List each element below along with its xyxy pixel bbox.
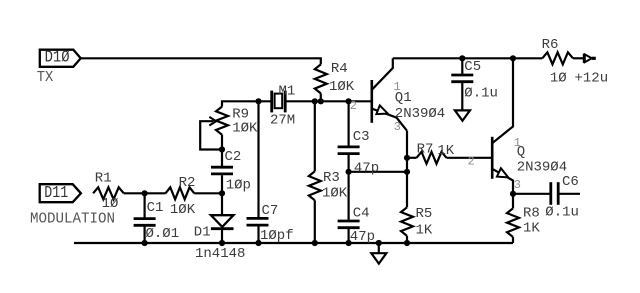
svg-text:C5: C5 bbox=[464, 59, 481, 75]
svg-text:2: 2 bbox=[350, 99, 357, 113]
svg-text:MODULATION: MODULATION bbox=[30, 211, 115, 228]
svg-text:R4: R4 bbox=[331, 61, 348, 77]
svg-text:1ØK: 1ØK bbox=[322, 186, 348, 202]
svg-text:Ø.1u: Ø.1u bbox=[545, 204, 579, 220]
svg-text:Ø.Ø1: Ø.Ø1 bbox=[146, 226, 180, 242]
svg-text:1ØK: 1ØK bbox=[232, 121, 258, 137]
svg-text:R2: R2 bbox=[179, 175, 196, 191]
svg-text:1Øpf: 1Øpf bbox=[260, 228, 294, 244]
svg-text:1: 1 bbox=[514, 136, 521, 150]
svg-text:C6: C6 bbox=[562, 174, 579, 190]
svg-text:+12u: +12u bbox=[575, 71, 609, 87]
svg-text:1Øp: 1Øp bbox=[226, 177, 251, 193]
svg-text:27M: 27M bbox=[270, 112, 295, 128]
svg-text:R5: R5 bbox=[416, 206, 433, 222]
svg-text:D1Ø: D1Ø bbox=[45, 49, 70, 68]
svg-text:Ø.1u: Ø.1u bbox=[464, 86, 498, 102]
svg-text:D11: D11 bbox=[44, 184, 68, 203]
svg-text:2N39Ø4: 2N39Ø4 bbox=[395, 106, 445, 122]
svg-text:1: 1 bbox=[394, 80, 401, 94]
svg-text:1K: 1K bbox=[523, 221, 540, 237]
svg-text:3: 3 bbox=[514, 178, 521, 192]
svg-text:R7: R7 bbox=[417, 141, 434, 157]
svg-text:1K: 1K bbox=[437, 143, 454, 159]
svg-text:47p: 47p bbox=[354, 160, 379, 176]
svg-text:R6: R6 bbox=[542, 37, 559, 53]
svg-text:D1: D1 bbox=[194, 225, 211, 241]
svg-text:1ØK: 1ØK bbox=[329, 79, 355, 95]
svg-text:1Ø: 1Ø bbox=[550, 71, 567, 87]
svg-text:C4: C4 bbox=[353, 206, 370, 222]
svg-text:C7: C7 bbox=[262, 203, 279, 219]
svg-text:C2: C2 bbox=[225, 149, 242, 165]
svg-text:2N39Ø4: 2N39Ø4 bbox=[517, 160, 567, 176]
svg-text:R1: R1 bbox=[95, 171, 112, 187]
svg-text:M1: M1 bbox=[279, 84, 296, 100]
svg-text:1Ø: 1Ø bbox=[102, 196, 119, 212]
svg-text:1n4148: 1n4148 bbox=[195, 246, 245, 262]
svg-text:2: 2 bbox=[468, 154, 475, 168]
svg-text:C1: C1 bbox=[147, 200, 164, 216]
svg-text:3: 3 bbox=[394, 120, 401, 134]
svg-text:R8: R8 bbox=[523, 205, 540, 221]
svg-text:1K: 1K bbox=[416, 222, 433, 238]
svg-text:R3: R3 bbox=[323, 170, 340, 186]
svg-text:C3: C3 bbox=[353, 129, 370, 145]
svg-text:TX: TX bbox=[37, 69, 54, 86]
svg-text:1ØK: 1ØK bbox=[170, 202, 196, 218]
svg-text:47p: 47p bbox=[350, 229, 375, 245]
